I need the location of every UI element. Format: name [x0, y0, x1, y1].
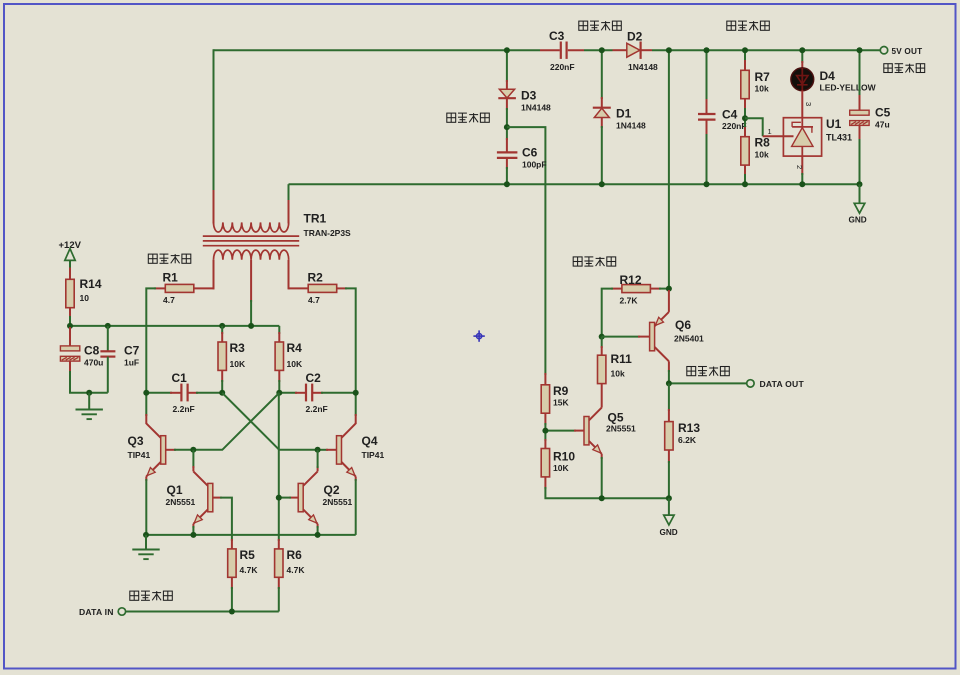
label cn doubler-rectifier	[579, 21, 622, 30]
svg-text:R7: R7	[755, 70, 771, 84]
transistor Q2	[279, 450, 318, 535]
node DATA OUT junction	[666, 380, 672, 386]
svg-text:15K: 15K	[553, 398, 569, 408]
wire R2 left to secondary	[289, 287, 309, 289]
resistor R10	[541, 449, 549, 477]
diode D1	[593, 97, 611, 128]
svg-text:D4: D4	[820, 69, 836, 83]
node Q5 base junction	[542, 428, 548, 434]
svg-text:3: 3	[804, 102, 813, 106]
node C1 left junction	[143, 390, 149, 396]
wire DATA IN line	[126, 611, 279, 613]
svg-text:C6: C6	[522, 146, 538, 160]
svg-text:GND: GND	[660, 528, 678, 537]
node C5 ground	[857, 181, 863, 187]
svg-text:1N4148: 1N4148	[628, 62, 658, 72]
svg-text:4.7: 4.7	[308, 295, 320, 305]
svg-text:2N5551: 2N5551	[166, 497, 196, 507]
svg-text:10k: 10k	[611, 369, 625, 379]
svg-text:2.2nF: 2.2nF	[306, 404, 328, 414]
svg-text:5V OUT: 5V OUT	[892, 47, 923, 56]
capacitor C6	[497, 138, 518, 169]
node C7 bus junction	[105, 323, 111, 329]
node Q1 emitter rail	[190, 532, 196, 538]
svg-text:R1: R1	[163, 271, 179, 285]
capacitor C4	[698, 50, 716, 184]
terminal DATA OUT	[747, 380, 754, 387]
label cn demod-output	[687, 367, 730, 376]
svg-text:DATA IN: DATA IN	[79, 607, 114, 617]
svg-text:R13: R13	[678, 421, 700, 435]
svg-text:R11: R11	[611, 352, 633, 366]
svg-text:10: 10	[80, 293, 90, 303]
wire D1 top	[601, 50, 603, 99]
node R3 bus junction	[219, 323, 225, 329]
node D1 rail junction	[599, 47, 605, 53]
node D3/C6 junction	[504, 124, 510, 130]
wire transformer primary left riser	[213, 49, 215, 192]
resistor R7	[741, 70, 749, 98]
capacitor C5	[850, 50, 869, 184]
label cn amplify-shape	[573, 257, 616, 266]
svg-text:2.2nF: 2.2nF	[173, 404, 195, 414]
resistor R13	[668, 383, 670, 411]
svg-text:R10: R10	[553, 450, 575, 464]
node C2 left junction	[276, 390, 282, 396]
wire D3 to C6 node	[506, 108, 508, 140]
svg-text:U1: U1	[826, 117, 842, 131]
svg-text:LED-YELLOW: LED-YELLOW	[820, 83, 877, 93]
svg-text:R5: R5	[240, 548, 256, 562]
node C6 ground	[504, 181, 510, 187]
resistor R12	[622, 285, 651, 293]
wire R7-R8 link	[744, 99, 746, 110]
wire D3 anode	[506, 50, 508, 82]
node R14/C8 junction	[67, 323, 73, 329]
wire D1 to ground rail	[601, 126, 603, 184]
svg-text:R2: R2	[308, 271, 324, 285]
svg-text:2.7K: 2.7K	[620, 296, 639, 306]
svg-text:2: 2	[795, 165, 804, 169]
transistor Q3	[146, 423, 193, 535]
ground GND top-right	[849, 184, 867, 224]
resistor R3	[221, 326, 223, 334]
wire DATA OUT line	[669, 382, 747, 384]
node Q6 base junction	[599, 334, 605, 340]
svg-text:220nF: 220nF	[722, 121, 747, 131]
svg-text:C3: C3	[549, 29, 565, 43]
capacitor C1	[146, 384, 222, 402]
resistor R1	[165, 284, 194, 292]
node Q2 base junction	[276, 495, 282, 501]
wire R5 bottom	[231, 577, 233, 589]
wire cross couple C1-Q4	[222, 393, 317, 450]
wire U1 pin2 to ground	[801, 156, 803, 175]
resistor R4	[278, 326, 280, 334]
transistor Q1	[193, 450, 232, 549]
svg-text:DATA OUT: DATA OUT	[760, 379, 805, 389]
svg-text:10k: 10k	[755, 150, 769, 160]
wire R1 right to secondary	[194, 287, 215, 289]
svg-text:2N5401: 2N5401	[674, 334, 704, 344]
node R7 rail	[742, 47, 748, 53]
svg-text:1N4148: 1N4148	[616, 121, 646, 131]
svg-text:D2: D2	[627, 30, 643, 44]
svg-text:Q4: Q4	[362, 434, 378, 448]
svg-text:GND: GND	[849, 216, 867, 225]
svg-text:C8: C8	[84, 344, 100, 358]
wire top 5V rail	[214, 49, 881, 51]
wire ground rail top section	[289, 183, 860, 185]
svg-text:10K: 10K	[230, 359, 246, 369]
svg-text:R6: R6	[287, 548, 303, 562]
wire C2 to R6 vertical	[278, 393, 280, 541]
op-amp U1 TL431 body	[783, 118, 821, 156]
svg-text:R9: R9	[553, 384, 569, 398]
node Q5 emitter rail	[599, 495, 605, 501]
svg-text:10K: 10K	[287, 359, 303, 369]
resistor R5	[228, 549, 236, 577]
svg-text:10K: 10K	[553, 463, 569, 473]
node center tap bus junction	[248, 323, 254, 329]
svg-text:R3: R3	[230, 341, 246, 355]
node R13 rail	[666, 495, 672, 501]
wire 5V feed to R12	[668, 50, 670, 288]
wire R12 right	[651, 288, 661, 290]
resistor R6	[275, 549, 283, 577]
wire R6 bottom	[278, 577, 280, 589]
transistor Q6	[602, 290, 669, 383]
svg-text:2N5551: 2N5551	[323, 497, 353, 507]
node Q4 base junction	[315, 447, 321, 453]
node Q3 base junction	[190, 447, 196, 453]
wire R12 left to Q6 base	[611, 288, 622, 290]
svg-text:C5: C5	[875, 106, 891, 120]
svg-text:1N4148: 1N4148	[521, 103, 551, 113]
svg-text:R14: R14	[80, 277, 102, 291]
label cn shunt-regulator	[727, 21, 770, 30]
svg-text:1uF: 1uF	[124, 358, 139, 368]
transistor Q5	[545, 383, 601, 498]
svg-text:4.7K: 4.7K	[240, 565, 259, 575]
wire D4 top	[801, 50, 803, 63]
node D1 ground	[599, 181, 605, 187]
node C1 right junction	[219, 390, 225, 396]
svg-text:R8: R8	[755, 136, 771, 150]
svg-text:100pF: 100pF	[522, 160, 547, 170]
svg-text:D1: D1	[616, 107, 632, 121]
wire detector output to R9	[507, 127, 546, 385]
power +12V	[59, 240, 82, 280]
node C5 top	[857, 47, 863, 53]
resistor R14	[66, 279, 74, 307]
svg-text:TRAN-2P3S: TRAN-2P3S	[304, 228, 352, 238]
svg-text:Q1: Q1	[167, 483, 183, 497]
node 5V feed top	[666, 47, 672, 53]
svg-text:Q6: Q6	[675, 318, 691, 332]
ground earth left	[76, 393, 103, 419]
terminal 5VOUT	[880, 47, 887, 54]
label cn envelope-detector	[447, 113, 490, 122]
svg-text:10k: 10k	[755, 84, 769, 94]
wire cross couple C2-Q3	[193, 393, 279, 450]
svg-text:Q2: Q2	[324, 483, 340, 497]
svg-text:4.7: 4.7	[163, 295, 175, 305]
node U1 ground	[799, 181, 805, 187]
resistor R8	[741, 137, 749, 165]
svg-text:TIP41: TIP41	[362, 450, 385, 460]
svg-text:Q5: Q5	[608, 411, 624, 425]
node R5 data junction	[229, 609, 235, 615]
resistor R2	[308, 284, 337, 292]
transistor Q4	[318, 423, 356, 535]
node R12/Q6 emitter junction	[666, 286, 672, 292]
svg-text:470u: 470u	[84, 358, 103, 368]
resistor R9	[541, 385, 549, 413]
node analog ground junction	[86, 390, 92, 396]
label cn power-output	[884, 64, 925, 73]
node Q3 emitter rail	[143, 532, 149, 538]
wire center tap to bus	[250, 300, 252, 326]
capacitor C3	[540, 42, 584, 59]
svg-text:1: 1	[768, 127, 772, 136]
capacitor C2	[279, 384, 355, 402]
ground earth oscillator	[132, 535, 159, 559]
svg-text:4.7K: 4.7K	[287, 565, 306, 575]
wire R1 left to Q3 collector line	[154, 287, 165, 289]
marker origin	[473, 330, 484, 341]
ground GND demodulator	[660, 498, 678, 537]
capacitor C7	[100, 326, 115, 393]
svg-text:C7: C7	[124, 344, 140, 358]
svg-text:C2: C2	[306, 371, 322, 385]
node C4 top	[704, 47, 710, 53]
node D4 rail	[799, 47, 805, 53]
wire C6 to ground rail	[506, 167, 508, 184]
svg-text:TIP41: TIP41	[128, 450, 151, 460]
node C4 ground	[704, 181, 710, 187]
wire primary right to ground rail	[288, 184, 290, 223]
svg-text:R4: R4	[287, 341, 303, 355]
wire 12V bus	[70, 325, 279, 327]
wire R2 right to Q4 collector line	[337, 287, 347, 289]
led D4	[791, 68, 814, 91]
wire R14 bottom	[69, 307, 71, 318]
wire ref pin1 jog	[745, 118, 763, 136]
node C2 right junction	[353, 390, 359, 396]
svg-text:TL431: TL431	[826, 133, 852, 143]
svg-text:47u: 47u	[875, 120, 890, 130]
transformer TR1	[203, 190, 299, 302]
svg-text:D3: D3	[521, 89, 537, 103]
node R7/R8 junction	[742, 115, 748, 121]
diode D3	[498, 80, 516, 110]
diode D2	[613, 42, 653, 59]
wire R7 top	[744, 50, 746, 62]
node Q2 emitter rail	[315, 532, 321, 538]
svg-text:6.2K: 6.2K	[678, 435, 697, 445]
wire R9 bottom	[544, 413, 546, 425]
wire R10 bottom	[544, 477, 546, 489]
node D3 rail junction	[504, 47, 510, 53]
capacitor C8	[60, 327, 107, 393]
node R8 ground	[742, 181, 748, 187]
svg-text:C1: C1	[172, 371, 188, 385]
svg-text:R12: R12	[620, 273, 642, 287]
svg-text:TR1: TR1	[304, 212, 327, 226]
svg-text:220nF: 220nF	[550, 62, 575, 72]
wire R8 bottom	[744, 165, 746, 176]
svg-text:2N5551: 2N5551	[606, 424, 636, 434]
svg-text:C4: C4	[722, 108, 738, 122]
label cn hf-oscillator	[148, 254, 191, 263]
svg-text:Q3: Q3	[128, 434, 144, 448]
label cn modulation-input	[130, 591, 173, 600]
wire emitter rail	[146, 534, 356, 536]
wire D4 to U1 pin3	[801, 91, 803, 118]
resistor R11	[601, 337, 603, 348]
